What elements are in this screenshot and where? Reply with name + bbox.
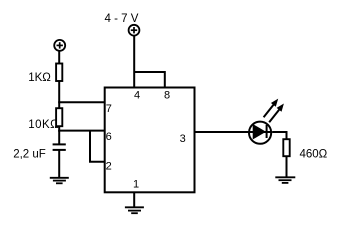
wire: LED to R3 (272, 132, 286, 139)
wire: junction to capacitor (58, 131, 60, 145)
ground (right) (275, 177, 295, 183)
LED light arrow 2 (269, 104, 284, 123)
svg-text:4: 4 (134, 90, 140, 102)
wire through LED (249, 131, 272, 133)
ground (left) (50, 178, 69, 184)
svg-text:6: 6 (106, 131, 112, 143)
wire: R2 bottom to junction (58, 126, 60, 131)
power supply symbol (top) (129, 25, 140, 36)
power supply symbol (left) (54, 40, 65, 51)
resistor R1 1KΩ (56, 64, 62, 82)
ground (bottom) (125, 207, 144, 213)
svg-text:1KΩ: 1KΩ (28, 72, 51, 84)
wire: pin 2 jog (90, 131, 105, 162)
svg-text:460Ω: 460Ω (300, 148, 328, 160)
wire: R3 to ground (286, 156, 288, 177)
LED triangle (anode) (253, 125, 265, 139)
resistor R2 10KΩ (56, 108, 62, 126)
capacitor C1 (53, 144, 66, 150)
svg-text:4 - 7 V: 4 - 7 V (105, 13, 139, 25)
resistor R3 460Ω (283, 139, 289, 156)
svg-text:10KΩ: 10KΩ (28, 119, 59, 131)
wire: pin 6 (58, 130, 104, 132)
LED D1 circle (249, 122, 271, 144)
LED cathode bar (266, 125, 268, 138)
wire: bridge pin 4 to pin 8 (134, 72, 165, 88)
svg-text:1: 1 (133, 179, 139, 191)
svg-text:2: 2 (106, 161, 112, 173)
svg-text:7: 7 (106, 103, 112, 115)
wire: R1 to R2 (junction with pin 7) (58, 81, 60, 108)
wire: top power to pin 4 (133, 35, 135, 87)
svg-text:8: 8 (164, 90, 170, 102)
IC U1 (555) body (105, 88, 195, 193)
wire: left power to R1 (58, 51, 60, 64)
svg-text:3: 3 (180, 133, 186, 145)
wire: pin 1 to ground (133, 192, 135, 207)
wire: capacitor to ground (58, 150, 60, 178)
wire: pin 7 (58, 101, 104, 103)
LED light arrow 1 (264, 99, 279, 118)
svg-text:2,2 uF: 2,2 uF (13, 149, 46, 161)
wire: pin 3 to LED (195, 131, 250, 133)
